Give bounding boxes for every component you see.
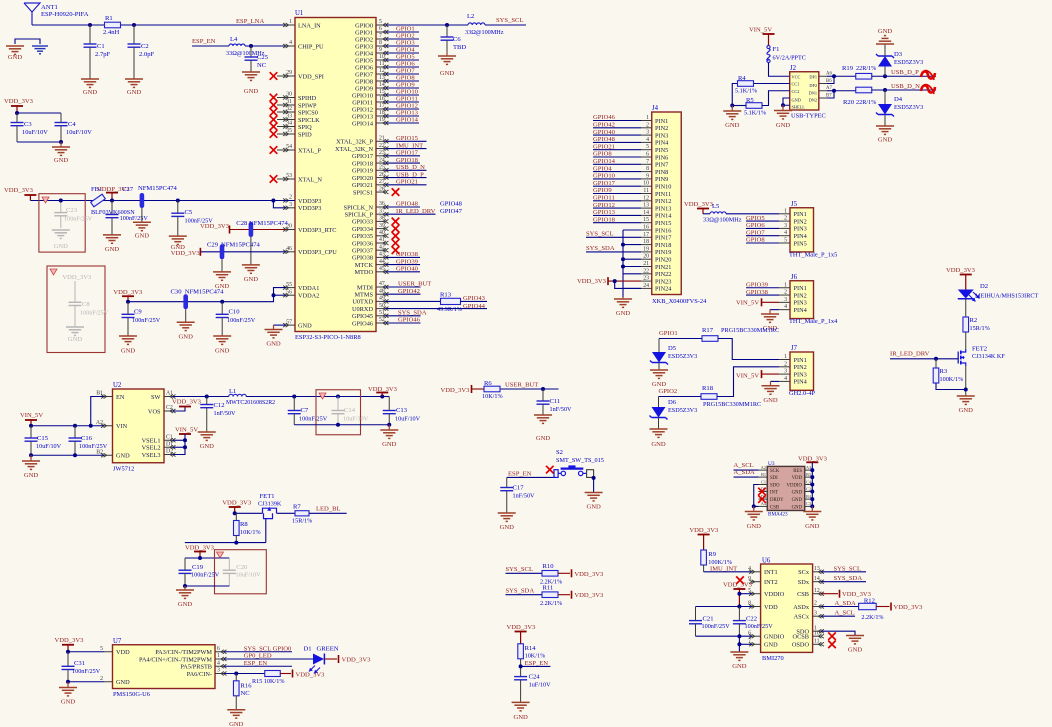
svg-text:GND: GND xyxy=(266,341,281,348)
svg-text:GND: GND xyxy=(135,233,150,240)
svg-text:GND: GND xyxy=(776,122,791,129)
svg-text:GND: GND xyxy=(54,157,69,164)
junction xyxy=(249,44,253,48)
svg-text:3: 3 xyxy=(784,369,787,375)
svg-text:R9: R9 xyxy=(708,551,716,558)
power VDD_3V3 xyxy=(890,603,892,611)
wire xyxy=(32,24,105,26)
svg-text:MTDI: MTDI xyxy=(357,284,373,291)
variant box 3 (not fitted) xyxy=(316,390,361,435)
pin 19 GPIO14 xyxy=(376,122,386,124)
junction xyxy=(737,592,741,596)
svg-text:GPIO33: GPIO33 xyxy=(352,219,373,226)
svg-text:U0RXD: U0RXD xyxy=(352,306,373,313)
wire xyxy=(876,606,889,608)
resistor R19 xyxy=(856,73,872,79)
svg-text:XTAL_P: XTAL_P xyxy=(298,147,321,154)
pin 23 GPIO17 xyxy=(376,155,386,157)
variant box 2 (not fitted) xyxy=(47,266,105,353)
pin 7 PIN7 xyxy=(641,163,652,165)
pin 32 SPICS0 xyxy=(286,111,295,113)
svg-text:GPIO2: GPIO2 xyxy=(659,388,678,395)
junction xyxy=(832,89,836,93)
svg-text:16: 16 xyxy=(643,225,649,231)
ground xyxy=(622,297,624,299)
ground xyxy=(730,651,748,653)
svg-text:1: 1 xyxy=(784,354,787,360)
svg-text:100nF/25V: 100nF/25V xyxy=(227,317,256,324)
junction xyxy=(336,395,340,399)
svg-text:GND: GND xyxy=(764,642,778,649)
antenna ground bracket xyxy=(15,39,40,44)
svg-text:XKB_X0400FVS-24: XKB_X0400FVS-24 xyxy=(652,298,707,305)
svg-text:2.2K/1%: 2.2K/1% xyxy=(540,600,562,607)
pin C1 SDO xyxy=(759,484,768,486)
antenna ANT1 xyxy=(24,3,40,12)
svg-text:MTCK: MTCK xyxy=(355,262,374,269)
ground xyxy=(81,78,99,80)
ground xyxy=(184,586,186,590)
junction xyxy=(964,388,968,392)
svg-text:D3: D3 xyxy=(894,51,903,58)
svg-text:R14: R14 xyxy=(525,645,537,652)
svg-text:CC1: CC1 xyxy=(792,82,800,87)
svg-text:GND: GND xyxy=(725,122,740,129)
svg-text:DN2: DN2 xyxy=(809,98,817,103)
svg-text:2: 2 xyxy=(814,601,817,607)
svg-text:GPIO2: GPIO2 xyxy=(355,36,373,43)
junction xyxy=(15,111,19,115)
svg-text:10uF/10V: 10uF/10V xyxy=(36,443,62,450)
pin C3 GND xyxy=(805,505,813,507)
svg-text:ESP_LNA: ESP_LNA xyxy=(236,18,264,25)
svg-text:GND: GND xyxy=(24,472,39,479)
svg-text:1uF/10V: 1uF/10V xyxy=(529,682,552,689)
svg-text:33Ω@100MHz: 33Ω@100MHz xyxy=(465,29,504,36)
pin 57 GND xyxy=(286,324,295,326)
svg-text:C30: C30 xyxy=(171,288,183,295)
wire xyxy=(623,244,641,246)
svg-text:C14: C14 xyxy=(344,407,356,414)
pin C2 VOS xyxy=(164,410,173,412)
svg-text:GND: GND xyxy=(382,441,397,448)
svg-text:VDD_SPI: VDD_SPI xyxy=(298,73,324,80)
svg-text:PIN15: PIN15 xyxy=(655,220,671,227)
svg-text:D1: D1 xyxy=(304,645,312,652)
svg-text:C31: C31 xyxy=(74,660,85,667)
svg-text:CJ3139K: CJ3139K xyxy=(258,501,282,508)
svg-text:SDx: SDx xyxy=(798,579,810,586)
svg-text:C3: C3 xyxy=(806,501,811,506)
junction xyxy=(234,672,238,676)
capacitor C12 xyxy=(206,397,208,405)
svg-text:TBD: TBD xyxy=(453,44,466,51)
svg-text:D2: D2 xyxy=(980,283,988,290)
svg-text:OCSB: OCSB xyxy=(793,634,809,641)
junction xyxy=(271,199,275,203)
svg-text:5.1K/1%: 5.1K/1% xyxy=(735,88,757,95)
capacitor C23 (NF) xyxy=(60,201,62,213)
no-connect X xyxy=(270,72,278,80)
pin 51 GPIO45 xyxy=(376,315,386,317)
wire xyxy=(277,512,296,514)
pin 40 GPIO35 xyxy=(376,235,386,237)
no-connect X xyxy=(828,641,836,649)
wire VDD rail xyxy=(696,606,753,608)
svg-text:GPIO44: GPIO44 xyxy=(463,303,486,310)
svg-text:SPIHD: SPIHD xyxy=(298,95,317,102)
junction xyxy=(89,424,93,428)
svg-text:SPICLK_P: SPICLK_P xyxy=(345,212,374,219)
pin 1 PA4/CIN+/CIN-/TIM2PWM xyxy=(215,658,224,660)
svg-text:PA4/CIN+/CIN-/TIM2PWM: PA4/CIN+/CIN-/TIM2PWM xyxy=(139,656,212,663)
svg-text:MTMS: MTMS xyxy=(354,292,373,299)
svg-text:SYS_SCL: SYS_SCL xyxy=(496,17,524,24)
inductor L1 xyxy=(229,394,247,396)
svg-text:GND: GND xyxy=(616,310,631,317)
wire xyxy=(461,300,488,302)
wire xyxy=(324,658,337,660)
svg-text:GPIO48: GPIO48 xyxy=(440,201,463,208)
pin 36 SPICLK_N xyxy=(376,206,386,208)
svg-text:USB_D_P: USB_D_P xyxy=(891,69,919,76)
svg-text:A2: A2 xyxy=(761,465,766,470)
svg-text:PIN1: PIN1 xyxy=(655,118,668,125)
svg-text:3: 3 xyxy=(217,668,220,674)
no-connect X xyxy=(392,218,400,226)
svg-text:1: 1 xyxy=(289,19,292,25)
svg-text:ESD5Z3V3: ESD5Z3V3 xyxy=(894,104,923,111)
pin 4 PA5/PRSTB xyxy=(215,665,224,667)
junction xyxy=(132,23,136,27)
capacitor C20 (NF) xyxy=(228,558,230,570)
ground xyxy=(133,221,151,223)
svg-text:SPID: SPID xyxy=(298,131,312,138)
resistor R20 xyxy=(856,87,872,93)
pin 22 PIN22 xyxy=(641,273,652,275)
pin B1 EN xyxy=(104,396,113,398)
pin 13 GPIO8 xyxy=(376,80,386,82)
variant box 4 (not fitted) xyxy=(215,550,267,594)
pin 2 GND xyxy=(104,681,113,683)
svg-text:VDD_3V3: VDD_3V3 xyxy=(4,98,34,105)
pin 13 SCx xyxy=(813,571,821,573)
svg-text:PIN24: PIN24 xyxy=(655,286,672,293)
pin 6 PIN6 xyxy=(641,156,652,158)
svg-text:SDO: SDO xyxy=(770,484,780,489)
svg-text:100nF/25V: 100nF/25V xyxy=(132,317,161,324)
svg-text:GPIO11: GPIO11 xyxy=(352,99,373,106)
junction xyxy=(621,257,625,261)
svg-text:GND: GND xyxy=(792,498,803,503)
ground xyxy=(213,271,231,273)
ground xyxy=(731,106,733,112)
inductor L5 xyxy=(703,213,710,215)
pin 4 PIN4 xyxy=(641,141,652,143)
junction xyxy=(730,104,734,108)
pin A4 CSB xyxy=(759,505,768,507)
svg-text:SPICS1: SPICS1 xyxy=(353,189,373,196)
svg-text:VDD_3V3: VDD_3V3 xyxy=(894,604,924,611)
IC U1 ESP32-S3-PICO-1-N8R8 xyxy=(295,18,376,332)
svg-text:C28: C28 xyxy=(236,220,248,227)
svg-text:NFM15PC474: NFM15PC474 xyxy=(249,220,289,227)
pin 50 U0RXD xyxy=(376,308,386,310)
svg-text:B2: B2 xyxy=(96,449,103,455)
ground xyxy=(213,335,231,337)
svg-text:15: 15 xyxy=(643,217,649,223)
svg-text:100nF/25V: 100nF/25V xyxy=(299,416,328,423)
pin 5 GPIO0 xyxy=(376,24,386,26)
svg-text:SPICS0: SPICS0 xyxy=(298,109,318,116)
svg-text:PIN14: PIN14 xyxy=(655,213,672,220)
ground (NF) xyxy=(52,229,70,231)
pin 14 SDx xyxy=(813,581,821,583)
junction xyxy=(220,300,224,304)
svg-text:GND: GND xyxy=(244,88,259,95)
svg-text:GND: GND xyxy=(83,89,98,96)
svg-text:R10: R10 xyxy=(543,563,555,570)
svg-text:VIN_5V: VIN_5V xyxy=(20,412,43,419)
wire SDO-CSB gnd xyxy=(754,485,759,507)
svg-text:VCC: VCC xyxy=(792,75,801,80)
ground xyxy=(770,309,779,311)
svg-text:C10: C10 xyxy=(229,309,241,316)
svg-text:19: 19 xyxy=(643,246,649,252)
resistor R12 xyxy=(859,603,877,609)
svg-text:GPIO21: GPIO21 xyxy=(352,182,373,189)
svg-text:GND: GND xyxy=(792,98,801,103)
svg-text:PIN8: PIN8 xyxy=(655,169,668,176)
svg-text:PIN18: PIN18 xyxy=(655,242,671,249)
svg-text:EN: EN xyxy=(116,394,125,401)
junction xyxy=(621,265,625,269)
junction xyxy=(336,423,340,427)
wire GNDIO rail xyxy=(696,635,753,637)
diff pair marker xyxy=(921,85,935,92)
pin 10 OCSB xyxy=(813,635,821,637)
svg-text:GND: GND xyxy=(651,441,666,448)
power VDD_3V3 xyxy=(338,655,340,663)
svg-text:D5: D5 xyxy=(668,345,677,352)
svg-text:VSEL2: VSEL2 xyxy=(142,445,161,452)
wire xyxy=(245,45,286,47)
svg-text:SYS_SDA: SYS_SDA xyxy=(506,587,535,594)
wire xyxy=(185,557,229,559)
svg-text:PIN19: PIN19 xyxy=(655,249,671,256)
junction xyxy=(292,395,296,399)
ground xyxy=(753,507,755,512)
svg-text:14: 14 xyxy=(643,210,649,216)
resistor R18 xyxy=(701,394,717,400)
svg-text:22: 22 xyxy=(643,268,649,274)
svg-text:8: 8 xyxy=(379,40,382,46)
pin 43 GPIO38 xyxy=(376,256,386,258)
svg-text:PIN20: PIN20 xyxy=(655,257,671,264)
svg-text:GND: GND xyxy=(878,28,893,35)
svg-text:C27: C27 xyxy=(122,186,134,193)
svg-text:SCx: SCx xyxy=(798,569,810,576)
svg-text:ASDx: ASDx xyxy=(793,604,810,611)
pin 31 SPIWP xyxy=(286,104,295,106)
svg-text:PIN4: PIN4 xyxy=(655,140,669,147)
svg-text:GND: GND xyxy=(805,523,820,530)
pin 5 VDD xyxy=(104,651,113,653)
svg-text:INT2: INT2 xyxy=(764,579,778,586)
svg-text:SPICLK: SPICLK xyxy=(298,117,320,124)
wire VIN rail xyxy=(31,425,104,427)
wire xyxy=(732,105,746,107)
junction xyxy=(883,88,887,92)
pin 3 PIN3 xyxy=(779,301,790,303)
junction xyxy=(737,634,741,638)
svg-text:GND: GND xyxy=(747,523,762,530)
svg-text:C17: C17 xyxy=(513,485,525,492)
svg-text:R15 10K/1%: R15 10K/1% xyxy=(252,678,284,685)
pin 33 SPICLK xyxy=(286,119,295,121)
pin B3 VDD xyxy=(805,476,813,478)
pin 17 GPIO12 xyxy=(376,108,386,110)
pin C1 VSEL1 xyxy=(164,439,173,441)
svg-text:PIN23: PIN23 xyxy=(655,278,671,285)
pin 54 XTAL_P xyxy=(286,149,295,151)
pin C4 VDDIO xyxy=(805,484,813,486)
svg-text:BMA423: BMA423 xyxy=(768,512,788,518)
svg-text:VDDA1: VDDA1 xyxy=(298,285,319,292)
svg-text:J2: J2 xyxy=(790,65,797,72)
svg-text:PIN3: PIN3 xyxy=(794,371,807,378)
resistor R13 xyxy=(441,298,461,304)
svg-text:4: 4 xyxy=(784,304,787,310)
wire U0TXD xyxy=(386,300,441,302)
pin 15 GPIO10 xyxy=(376,94,386,96)
ground xyxy=(534,414,552,416)
svg-text:U7: U7 xyxy=(113,638,122,645)
svg-text:PIN2: PIN2 xyxy=(655,125,668,132)
pin 10 GPIO5 xyxy=(376,59,386,61)
svg-text:C7: C7 xyxy=(301,407,309,414)
svg-text:10uF/10V: 10uF/10V xyxy=(236,572,262,579)
svg-text:SHELL: SHELL xyxy=(792,105,806,110)
svg-text:GPIO34: GPIO34 xyxy=(352,226,374,233)
svg-text:10K/1%: 10K/1% xyxy=(240,529,261,536)
svg-text:PIN7: PIN7 xyxy=(655,162,668,169)
svg-text:10uF/10V: 10uF/10V xyxy=(22,129,48,136)
svg-text:5.1K/1%: 5.1K/1% xyxy=(744,110,766,117)
pin 48 MTMS xyxy=(376,293,386,295)
feedthrough capacitor C30 NFM15PC474 xyxy=(183,294,188,309)
pin 5 PIN5 xyxy=(641,149,652,151)
svg-text:PIN10: PIN10 xyxy=(655,184,671,191)
svg-text:GND: GND xyxy=(959,407,974,414)
svg-text:ASCx: ASCx xyxy=(794,614,810,621)
ground xyxy=(67,682,69,688)
wire xyxy=(623,258,641,260)
svg-text:VDDIO: VDDIO xyxy=(787,484,803,489)
svg-text:C23: C23 xyxy=(66,207,78,214)
svg-text:10uF/10V: 10uF/10V xyxy=(66,129,92,136)
capacitor C11 xyxy=(542,389,544,401)
svg-text:PIN22: PIN22 xyxy=(655,271,671,278)
svg-text:1: 1 xyxy=(784,282,787,288)
ground xyxy=(771,380,780,382)
svg-text:R5: R5 xyxy=(746,97,754,104)
pin 52 GPIO46 xyxy=(376,322,386,324)
connector J7 GH2.0-4P xyxy=(790,352,814,390)
pin 49 U0TXD xyxy=(376,300,386,302)
svg-text:10: 10 xyxy=(643,181,649,187)
wire USB_D_P xyxy=(872,75,937,77)
svg-text:PIN4: PIN4 xyxy=(794,307,808,314)
pin 7 GND xyxy=(752,643,761,645)
wire VDD3P3 rail xyxy=(30,200,295,202)
svg-text:GND: GND xyxy=(121,348,136,355)
wire VOS xyxy=(173,407,186,412)
svg-text:PRG15BC330MM1RC: PRG15BC330MM1RC xyxy=(703,401,761,408)
wire xyxy=(717,367,779,397)
ground xyxy=(876,125,894,127)
junction xyxy=(29,424,33,428)
svg-text:100nF/25V: 100nF/25V xyxy=(72,668,101,675)
svg-text:GND: GND xyxy=(440,70,455,77)
svg-text:THT_Male_P_1x5: THT_Male_P_1x5 xyxy=(789,252,837,259)
ground xyxy=(177,321,195,323)
svg-text:ESP-H0920-PIFA: ESP-H0920-PIFA xyxy=(41,11,89,18)
ground xyxy=(103,234,121,236)
capacitor C1 xyxy=(89,25,91,44)
capacitor C19 xyxy=(184,558,186,570)
svg-text:9: 9 xyxy=(379,47,382,53)
pin 3 VDD3P3 xyxy=(286,207,295,209)
resistor R8 xyxy=(235,513,237,521)
wire xyxy=(120,24,286,26)
svg-text:GPIO47: GPIO47 xyxy=(440,208,463,215)
svg-text:PIN5: PIN5 xyxy=(655,147,668,154)
svg-text:R18: R18 xyxy=(702,385,714,392)
svg-text:VDD3P3_CPU: VDD3P3_CPU xyxy=(298,249,337,256)
svg-text:VIN_5V: VIN_5V xyxy=(736,372,759,379)
svg-text:C4: C4 xyxy=(68,121,76,128)
pin 21 PIN21 xyxy=(641,266,652,268)
junction xyxy=(810,504,814,508)
svg-text:D4: D4 xyxy=(894,96,903,103)
ground xyxy=(446,52,448,56)
svg-text:21: 21 xyxy=(643,261,649,267)
ground xyxy=(811,507,813,512)
junction xyxy=(781,103,785,107)
svg-text:5: 5 xyxy=(646,144,649,150)
pin 56 VDDA2 xyxy=(286,294,295,296)
junction xyxy=(73,453,77,457)
junction xyxy=(183,445,187,449)
svg-text:PIN12: PIN12 xyxy=(655,198,671,205)
svg-text:U3: U3 xyxy=(768,461,775,467)
wire SW xyxy=(173,396,229,398)
svg-text:B1: B1 xyxy=(96,391,103,397)
svg-text:VDD_3V3: VDD_3V3 xyxy=(171,250,201,257)
svg-text:U2: U2 xyxy=(113,382,122,389)
svg-text:15R/1%: 15R/1% xyxy=(970,325,990,332)
svg-text:PIN16: PIN16 xyxy=(655,227,671,234)
svg-text:GND: GND xyxy=(229,721,244,727)
svg-text:C11: C11 xyxy=(550,398,561,405)
svg-text:VDD_3V3: VDD_3V3 xyxy=(185,545,215,552)
svg-text:IR_LED_DRV: IR_LED_DRV xyxy=(890,351,930,358)
ground xyxy=(169,235,187,237)
svg-text:2.2K/1%: 2.2K/1% xyxy=(861,614,883,621)
svg-text:PIN3: PIN3 xyxy=(794,300,807,307)
no-connect X xyxy=(270,101,278,109)
